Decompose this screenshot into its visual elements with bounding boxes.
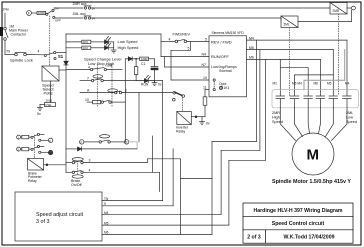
svg-text:S1: S1 xyxy=(58,54,64,59)
terminal R brake xyxy=(48,150,52,154)
svg-text:Contactor: Contactor xyxy=(11,33,27,37)
ground inverter xyxy=(200,122,205,125)
svg-text:M5 M4: M5 M4 xyxy=(292,82,302,86)
resistor 1K LED1 xyxy=(82,40,91,43)
mech link dotted 2MR xyxy=(338,14,340,96)
svg-text:5: 5 xyxy=(188,47,190,51)
motor M spindle xyxy=(292,133,334,175)
svg-text:2ML: 2ML xyxy=(346,111,353,115)
capacitor C1 row diode xyxy=(125,57,132,61)
box Speed adjust circuit xyxy=(15,192,102,241)
svg-text:1K0: 1K0 xyxy=(83,40,88,44)
ground C1 xyxy=(152,83,157,86)
lever mech link dotted right xyxy=(111,65,113,107)
svg-text:/Normal: /Normal xyxy=(219,69,232,73)
svg-text:Hardinge HLV-H 397 Wiring Diag: Hardinge HLV-H 397 Wiring Diagram xyxy=(254,208,343,214)
svg-text:4: 4 xyxy=(38,50,40,54)
relay Inverter xyxy=(177,112,192,125)
jog row wire xyxy=(84,141,99,143)
svg-text:7: 7 xyxy=(87,77,89,81)
svg-text:@ 1K1: @ 1K1 xyxy=(219,86,230,90)
motor lead 4 xyxy=(319,108,321,134)
wire brake relay to rail xyxy=(44,164,67,166)
contact bank 3 xyxy=(304,96,313,108)
resistor inverter pin11 xyxy=(203,97,207,117)
lever row4 wire right xyxy=(111,59,125,142)
svg-text:N7: N7 xyxy=(202,63,207,67)
switch group A circled 1 xyxy=(17,135,21,139)
ground LEDs xyxy=(111,50,116,53)
terminal 0v top right xyxy=(352,6,356,10)
wire stub TN xyxy=(102,81,163,201)
svg-text:M5: M5 xyxy=(327,82,332,86)
svg-text:2ML aux: 2ML aux xyxy=(73,12,87,16)
left rail vertical xyxy=(65,34,67,172)
svg-text:Relay: Relay xyxy=(28,179,37,183)
wire FSE to ground xyxy=(40,105,45,108)
svg-text:M4: M4 xyxy=(104,211,109,215)
jog row terminal F xyxy=(80,140,84,144)
lever cam oval 2 xyxy=(108,89,118,92)
diode D1 on rail xyxy=(64,61,68,65)
contact bank 4 xyxy=(316,96,325,108)
svg-text:4: 4 xyxy=(89,168,91,172)
wire 2ML coil return xyxy=(298,10,352,22)
motor lead 1 xyxy=(280,108,295,141)
svg-text:10: 10 xyxy=(203,76,207,80)
LED RUN xyxy=(136,75,150,82)
svg-text:REV / FWD: REV / FWD xyxy=(211,39,232,44)
svg-text:Relay: Relay xyxy=(176,130,185,134)
wire brake drop xyxy=(152,136,154,172)
wire 1M to T9 xyxy=(4,41,6,55)
svg-text:FSE: FSE xyxy=(46,103,52,107)
jog row terminal R xyxy=(124,140,128,144)
LED High Speed xyxy=(105,42,111,49)
lever row1 contacts xyxy=(90,68,106,71)
svg-text:5: 5 xyxy=(104,202,106,206)
brake oval top xyxy=(72,158,83,161)
lever row2 wire xyxy=(80,80,91,82)
svg-text:100R: 100R xyxy=(141,57,148,61)
lever cam oval 1 xyxy=(93,75,103,78)
wire pots box to rail xyxy=(59,69,66,71)
contactor contact 1M xyxy=(4,27,8,40)
jog cam oval xyxy=(100,135,110,138)
switch selector pole1 xyxy=(46,9,55,18)
wire LED feed row1 xyxy=(66,41,82,43)
switch Spindle Lock (NC) xyxy=(15,53,27,56)
junction dot C1 row xyxy=(135,58,137,60)
svg-text:M4: M4 xyxy=(249,36,254,40)
wire A to terminal F xyxy=(41,139,48,141)
wire r1 to LED1 xyxy=(91,41,105,43)
svg-text:C1: C1 xyxy=(141,62,145,66)
wire VFD pin M5 xyxy=(247,50,334,96)
terminal lamp F xyxy=(27,11,32,16)
wire stub M6 xyxy=(102,40,257,234)
contact bank 6 xyxy=(343,96,352,108)
brake contact row 3 xyxy=(66,161,83,164)
switch group B circled 2 xyxy=(17,147,21,151)
svg-text:M5: M5 xyxy=(249,46,254,50)
capacitor C1 xyxy=(151,59,158,83)
svg-text:Spindle Lock: Spindle Lock xyxy=(10,58,33,63)
node 24v supply xyxy=(4,13,6,27)
wire spindle lock to S1 hinge xyxy=(27,54,45,56)
svg-text:M1: M1 xyxy=(273,82,278,86)
svg-text:RUN: RUN xyxy=(141,83,149,87)
svg-text:3: 3 xyxy=(89,159,91,163)
lever row2 contacts xyxy=(91,79,103,82)
jog row contacts xyxy=(99,140,110,143)
lever row2 wire right xyxy=(103,80,162,82)
lever row1 stub xyxy=(107,69,123,71)
resistor 1K LED2 xyxy=(82,46,91,49)
svg-text:F: F xyxy=(28,12,30,16)
wire inverter relay out xyxy=(191,116,205,122)
wire row3 right xyxy=(83,159,180,235)
svg-text:Spindle Motor 1.5/0.5hp 415v: Spindle Motor 1.5/0.5hp 415v Y xyxy=(272,179,351,185)
svg-text:2ML: 2ML xyxy=(284,23,290,27)
svg-text:2: 2 xyxy=(125,89,127,93)
resistor group A xyxy=(21,135,31,138)
wire S1 to rail xyxy=(56,51,66,53)
svg-text:RUN/OFF: RUN/OFF xyxy=(211,54,229,59)
svg-text:2MR aux: 2MR aux xyxy=(73,2,87,6)
title block xyxy=(243,203,353,243)
svg-text:4: 4 xyxy=(169,38,171,42)
wire VFD pin M6 xyxy=(247,59,321,95)
svg-text:41005: 41005 xyxy=(105,64,113,68)
LED Low Speed xyxy=(105,37,111,44)
svg-text:High Speed: High Speed xyxy=(118,45,139,50)
resistor C1 row xyxy=(132,57,154,60)
wire bank feed M2 xyxy=(295,75,334,96)
svg-text:M6: M6 xyxy=(104,231,109,235)
wire FWD-REV to pin5 xyxy=(187,40,209,42)
terminal F brake xyxy=(48,138,52,142)
wire grey link xyxy=(304,50,345,90)
wire loop right vertical xyxy=(160,34,162,57)
wire RUN led to ground xyxy=(148,81,154,83)
black tab left edge xyxy=(0,27,3,36)
lever mech link dotted left xyxy=(96,65,98,107)
wire jog drop xyxy=(138,93,140,142)
relay coil 2ML xyxy=(281,16,298,28)
ground pots xyxy=(38,108,43,111)
wire T9 row xyxy=(5,54,15,56)
svg-text:5: 5 xyxy=(205,38,207,42)
svg-text:FWD/REV: FWD/REV xyxy=(173,33,191,37)
svg-text:14: 14 xyxy=(92,17,96,21)
relay coil 2MR xyxy=(330,3,347,15)
svg-text:M6: M6 xyxy=(249,56,254,60)
mech link dotted jog relay xyxy=(182,98,184,112)
wire LEDs to ground xyxy=(108,42,113,50)
contact bank 2 xyxy=(290,96,299,108)
svg-text:M: M xyxy=(307,147,320,164)
svg-text:2 of 3: 2 of 3 xyxy=(247,234,261,240)
svg-text:M5: M5 xyxy=(104,221,109,225)
jog row wire right xyxy=(129,142,137,149)
jog row wire 2 xyxy=(110,141,124,143)
svg-text:F: F xyxy=(81,140,83,144)
svg-text:Low Speed: Low Speed xyxy=(118,39,138,44)
resistor 100R top xyxy=(32,11,46,14)
svg-text:Low: Low xyxy=(346,116,353,120)
svg-text:N4: N4 xyxy=(202,53,207,57)
wire bank feed M1 xyxy=(280,59,308,95)
svg-text:0v: 0v xyxy=(206,122,210,126)
svg-text:Siemens MM150 VFD: Siemens MM150 VFD xyxy=(212,31,245,35)
svg-text:W.K.Todd 17/04/2009: W.K.Todd 17/04/2009 xyxy=(284,234,335,240)
motor lead 2 xyxy=(295,108,303,137)
svg-text:10: 10 xyxy=(85,98,89,102)
svg-text:M4: M4 xyxy=(345,82,350,86)
svg-text:0v: 0v xyxy=(158,83,162,87)
wire B to terminal R xyxy=(41,151,48,153)
svg-text:Speed Control circuit: Speed Control circuit xyxy=(272,221,325,227)
contact 2MR aux (NC) xyxy=(84,6,91,9)
mech link dotted pole1-pole2 xyxy=(49,16,51,66)
wire row4 right xyxy=(83,172,159,191)
wire LED feed row2 xyxy=(66,47,82,49)
wire N7 branch xyxy=(165,57,210,67)
svg-text:M6: M6 xyxy=(314,82,319,86)
motor lead 3 xyxy=(308,108,309,134)
diode brake row xyxy=(66,147,137,151)
resistor vertical RUN xyxy=(134,59,137,81)
wire VFD pin M4 xyxy=(247,40,348,96)
lever row3 contacts xyxy=(115,91,122,94)
wire stub 5 xyxy=(102,149,173,206)
svg-text:OFF: OFF xyxy=(55,19,61,23)
wire brake aux right xyxy=(181,178,213,180)
lever row1 wire xyxy=(66,69,90,71)
svg-text:ON: ON xyxy=(54,7,59,11)
svg-text:High: High xyxy=(272,116,280,120)
wire stub M4 xyxy=(102,50,260,215)
lever row3 wire xyxy=(80,92,115,94)
svg-text:16: 16 xyxy=(92,7,96,11)
mech link dotted brake onoff xyxy=(77,161,79,175)
svg-text:1K0: 1K0 xyxy=(83,46,88,50)
wire lower rail 2ML xyxy=(55,17,84,19)
svg-text:Potts: Potts xyxy=(44,91,53,96)
switch A blade xyxy=(31,133,44,141)
svg-text:2MR: 2MR xyxy=(333,9,340,13)
mech link dotted 2ML xyxy=(289,28,291,96)
svg-text:3 of 3: 3 of 3 xyxy=(36,219,50,225)
contact 2ML aux (NC) xyxy=(84,16,91,19)
brake contact row 4 xyxy=(66,171,83,174)
wire 2MR coil to terminal xyxy=(347,7,351,9)
wire N4 run xyxy=(161,56,209,58)
VFD pot pins symbol xyxy=(213,79,223,91)
svg-text:On/Off: On/Off xyxy=(71,183,82,187)
svg-text:24v: 24v xyxy=(3,7,9,12)
brake oval bottom xyxy=(72,175,83,178)
switch S1 pole2 xyxy=(44,52,56,60)
svg-text:4: 4 xyxy=(88,66,90,70)
relay Speed Select Potts xyxy=(42,66,59,81)
contact bank 5 xyxy=(329,96,338,108)
svg-text:11: 11 xyxy=(203,86,207,90)
svg-text:Speed: Speed xyxy=(272,120,283,124)
wire pin11 xyxy=(205,90,209,97)
wire 2MR aux to coil xyxy=(91,7,331,9)
lever row4 contacts xyxy=(101,100,111,103)
wire pots to FSE xyxy=(50,81,52,103)
resistor group B xyxy=(21,147,31,150)
contact bank 1 xyxy=(276,96,285,108)
lever row4 resistor xyxy=(87,100,101,103)
wire stub M5 xyxy=(102,59,266,225)
switch FWD-REV xyxy=(161,39,187,42)
svg-text:100R: 100R xyxy=(38,11,45,15)
wire 2ML aux to coil xyxy=(91,18,282,21)
svg-text:F: F xyxy=(49,139,51,143)
svg-text:5v: 5v xyxy=(37,112,41,116)
wire top rail 2MR xyxy=(54,7,83,9)
switch B blade xyxy=(31,145,44,153)
motor lead 6 xyxy=(332,108,348,141)
svg-text:2MR: 2MR xyxy=(272,111,280,115)
svg-text:TN: TN xyxy=(104,197,109,201)
resistor FSE xyxy=(45,103,56,107)
wire r2 to LED2 xyxy=(91,47,105,49)
lever row3 wire right to jog xyxy=(122,92,171,94)
relay Brake Potmeter xyxy=(28,159,44,171)
svg-text:T9: T9 xyxy=(6,50,10,54)
svg-text:Speed adjust circuit: Speed adjust circuit xyxy=(36,212,84,218)
motor lead 5 xyxy=(326,108,334,137)
svg-text:Speed: Speed xyxy=(346,120,357,124)
switch jog lever xyxy=(171,92,185,101)
wire jog down to pin10 xyxy=(171,41,209,80)
contact bank box xyxy=(272,90,359,108)
VFD box Siemens MM150 xyxy=(209,36,247,97)
mech link dotted brake pots xyxy=(34,135,36,159)
top loop horizontal xyxy=(66,33,161,35)
